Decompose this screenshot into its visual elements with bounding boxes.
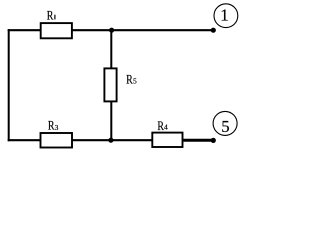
svg-text:1: 1 xyxy=(220,6,229,25)
svg-text:R: R xyxy=(126,71,133,86)
junction dot top middle xyxy=(109,28,114,33)
junction dot top right xyxy=(211,28,216,33)
wire bottom horizontal xyxy=(8,139,214,141)
wire left vertical xyxy=(8,29,10,141)
wire middle vertical xyxy=(110,30,112,140)
resistor R5 middle xyxy=(104,68,116,101)
junction dot bottom middle xyxy=(108,138,113,143)
wire top horizontal xyxy=(8,29,214,31)
terminal circle 1 xyxy=(214,4,238,28)
svg-text:5: 5 xyxy=(221,117,229,136)
wire thick segment to terminal 5 xyxy=(184,139,214,142)
resistor R1 xyxy=(41,23,72,38)
svg-text:R: R xyxy=(47,8,54,23)
resistor R3 xyxy=(41,133,73,148)
svg-text:3: 3 xyxy=(55,123,59,132)
terminal circle 5 xyxy=(213,111,237,135)
junction dot bottom right xyxy=(211,138,216,143)
svg-text:4: 4 xyxy=(164,123,168,132)
resistor R4 xyxy=(152,133,182,147)
svg-text:5: 5 xyxy=(133,77,137,86)
